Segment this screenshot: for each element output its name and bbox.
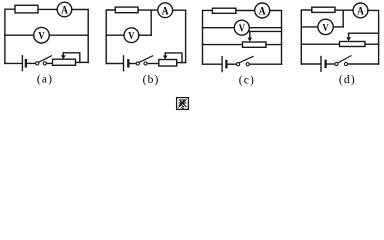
switch contact 2 (b)	[144, 62, 147, 65]
wire: ammeter to top-right corner and right edge (a)	[72, 10, 88, 63]
resistor R (d)	[312, 7, 335, 12]
switch contact 2 (a)	[43, 62, 46, 65]
wire: rheostat row left (d)	[301, 43, 339, 45]
switch contact 1 (a)	[36, 62, 39, 65]
ammeter A (a)	[57, 2, 72, 17]
wire: rheostat right end to right edge (c)	[266, 44, 282, 46]
wire: bottom-left to battery (a)	[5, 62, 22, 64]
rheostat body (b)	[159, 60, 177, 67]
svg-text:V: V	[323, 22, 329, 34]
wire: resistor to ammeter (b)	[138, 9, 158, 11]
wire: rheostat right end to right edge (d)	[365, 43, 379, 45]
rheostat body (c)	[243, 42, 267, 47]
rheostat wiper arrow (c)	[249, 31, 251, 37]
wire: left edge and top-left of (b)	[106, 10, 115, 64]
battery long plate (c)	[221, 57, 223, 72]
resistor R (a)	[15, 5, 38, 13]
switch lever (c)	[240, 56, 253, 62]
wire: voltmeter row left (b)	[106, 34, 124, 36]
caption character tu (figure)	[177, 98, 189, 110]
wire: resistor to ammeter (c)	[236, 10, 255, 12]
svg-text:(b): (b)	[143, 74, 160, 86]
wire: left edge and top-left of (c)	[203, 10, 213, 64]
voltmeter V (a)	[34, 27, 50, 43]
wire: switch to right edge (c)	[250, 63, 282, 65]
svg-text:A: A	[162, 5, 169, 17]
node: junction between resistor and ammeter, wire down to voltmeter (b)	[150, 10, 152, 35]
voltmeter V (b)	[124, 28, 139, 43]
resistor R (b)	[115, 7, 138, 13]
wire: voltmeter row left (c)	[203, 27, 235, 29]
svg-text:V: V	[38, 30, 44, 42]
wire: voltmeter row right (a)	[49, 34, 88, 36]
wire: bottom-left to battery (c)	[203, 63, 222, 65]
wire: wiper branch horizontal to right edge (c)	[249, 30, 282, 32]
svg-text:(a): (a)	[37, 73, 53, 85]
ammeter A (c)	[255, 3, 270, 18]
wire: bottom-left to battery (d)	[301, 63, 320, 65]
wire: rheostat right end to right edge (a)	[76, 61, 89, 63]
svg-text:A: A	[61, 5, 68, 17]
battery long plate (b)	[123, 56, 125, 71]
wire: battery to switch (b)	[130, 63, 137, 65]
rheostat wiper arrow (b)	[164, 53, 166, 55]
rheostat wiper arrow (a)	[62, 53, 64, 55]
wire: switch to rheostat (b)	[147, 63, 159, 65]
battery short plate (d)	[324, 61, 326, 67]
wire: voltmeter row left (a)	[5, 34, 34, 36]
switch contact 1 (b)	[136, 62, 139, 65]
voltmeter V (d)	[318, 19, 333, 34]
ammeter A (d)	[353, 3, 368, 18]
voltmeter V (c)	[234, 20, 249, 35]
rheostat body (d)	[340, 42, 366, 47]
battery long plate (a)	[21, 56, 23, 71]
ammeter A (b)	[158, 3, 173, 18]
svg-text:(d): (d)	[339, 74, 356, 86]
switch contact 2 (d)	[344, 62, 347, 65]
wire: rheostat row left (c)	[203, 44, 243, 46]
wire: left edge and top-left of (a)	[5, 9, 15, 63]
wire: battery to switch (d)	[327, 63, 335, 65]
wire: battery to switch (a)	[27, 62, 35, 64]
switch contact 1 (c)	[237, 63, 240, 66]
wire: voltmeter to junction riser (d)	[333, 26, 343, 28]
svg-text:(c): (c)	[239, 74, 255, 86]
wire: rheostat right end to right edge (b)	[177, 62, 186, 64]
wire: ammeter to top-right corner and right edge (d)	[368, 10, 379, 64]
switch contact 1 (d)	[335, 62, 338, 65]
battery long plate (d)	[320, 57, 322, 72]
wire: bottom-left to battery (b)	[106, 63, 123, 65]
svg-text:V: V	[239, 23, 245, 35]
resistor R (c)	[212, 8, 236, 13]
rheostat body (a)	[53, 59, 76, 65]
svg-text:A: A	[357, 6, 364, 18]
wire: wiper horizontal to right edge (d)	[349, 32, 379, 34]
switch lever (b)	[139, 56, 152, 63]
svg-text:V: V	[128, 30, 134, 42]
wire: switch to right edge (d)	[348, 63, 379, 65]
wire: ammeter to top-right corner and right edge (c)	[270, 11, 282, 65]
svg-text:A: A	[259, 6, 266, 18]
wire: ammeter to top-right corner and right edge (b)	[173, 10, 186, 62]
battery short plate (a)	[25, 60, 27, 66]
wire: switch to rheostat (a)	[47, 62, 53, 64]
wire: voltmeter row right to right edge (c)	[249, 27, 281, 29]
battery short plate (b)	[127, 60, 129, 66]
wire: battery to switch (c)	[228, 63, 237, 65]
wire: left edge and top-left of (d)	[301, 10, 312, 64]
rheostat wiper arrow (d)	[348, 33, 350, 37]
battery short plate (c)	[225, 61, 227, 67]
switch contact 2 (c)	[246, 63, 249, 66]
switch lever (d)	[338, 56, 351, 63]
wire: resistor to ammeter (a)	[38, 8, 57, 10]
wire: voltmeter to junction riser (b)	[139, 34, 151, 36]
wire: voltmeter row left (d)	[301, 26, 318, 28]
wire: resistor to ammeter (d)	[335, 9, 353, 11]
node: junction between resistor and ammeter, wire down to voltmeter (d)	[342, 10, 344, 27]
wire: wiper to right junction (a)	[63, 53, 80, 63]
wire: wiper to right junction (b)	[165, 53, 182, 63]
switch lever (a)	[39, 56, 52, 62]
